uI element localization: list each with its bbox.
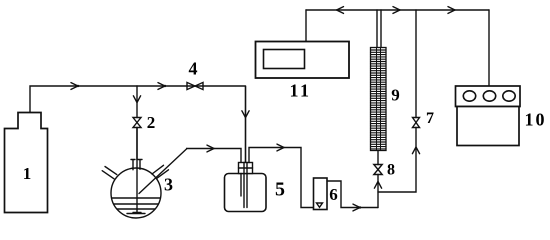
svg-text:10: 10: [525, 110, 547, 130]
arrow right after column: [393, 7, 400, 14]
instrument 11: [256, 42, 350, 79]
wire valve 4 to bottle 5 dip tube: [245, 86, 247, 163]
wire cylinder to main line: [30, 86, 245, 112]
svg-text:4: 4: [189, 59, 198, 79]
instrument 10 body: [457, 107, 519, 146]
box 11 riser: [305, 10, 307, 42]
instrument 11 display: [264, 50, 305, 69]
svg-text:6: 6: [329, 185, 338, 204]
flask 3 body: [111, 168, 161, 218]
arrow right to box 10: [448, 7, 455, 14]
arrow up to valve 7: [412, 147, 419, 154]
arrow left to box 11: [337, 7, 344, 14]
wire valve 2 to flask: [136, 128, 138, 161]
svg-text:3: 3: [164, 175, 173, 195]
wire junction drop to valve 2: [136, 86, 138, 118]
instrument 10 knob B: [483, 91, 495, 101]
column 9 tubes: [377, 10, 381, 48]
wire top line to box 10: [488, 10, 490, 86]
arrow right on flask outlet: [207, 145, 214, 152]
valve 2: [133, 118, 141, 128]
wire branch to valve 7 riser: [378, 128, 416, 193]
wire flowmeter 6 to valve 8 riser: [327, 181, 378, 208]
flask 3 left neck: [102, 167, 117, 179]
flask 3 center neck: [131, 160, 142, 170]
flask 3 liquid: [112, 198, 161, 214]
valve 4: [187, 82, 203, 89]
valve 8: [374, 165, 382, 175]
arrow down to valve 2: [133, 96, 140, 103]
gas cylinder 1: [5, 113, 48, 213]
arrow down to bottle 5: [242, 111, 249, 118]
arrow up to valve 8: [374, 182, 381, 189]
bottle 5 body: [225, 174, 267, 212]
arrow right on bottom wire: [353, 204, 360, 211]
wire flask 3 outlet to bottle 5: [139, 149, 241, 194]
arrow right on main line: [71, 83, 78, 90]
instrument 10 knob A: [463, 91, 475, 101]
svg-text:9: 9: [391, 86, 400, 105]
bottle 5 inner tubes: [241, 163, 247, 208]
bottle 5 cap: [239, 163, 253, 174]
arrow right before valve 4: [158, 83, 165, 90]
instrument 10 knob C: [503, 91, 515, 101]
svg-text:7: 7: [426, 110, 434, 127]
svg-text:1: 1: [23, 164, 32, 183]
svg-text:8: 8: [387, 162, 395, 179]
flowmeter 6: [314, 178, 328, 210]
flowmeter 6 float: [317, 203, 323, 207]
flask 3 right neck: [152, 165, 169, 178]
valve 7: [413, 118, 420, 128]
instrument 10 top strip: [456, 86, 521, 107]
wire valve 8 to column 9: [377, 151, 379, 165]
wire valve 7 to top line: [415, 10, 417, 118]
wire bottle 5 outlet to flowmeter 6: [249, 148, 314, 208]
column 9: [371, 48, 387, 151]
arrow right to flowmeter: [277, 144, 284, 151]
svg-text:11: 11: [289, 81, 311, 101]
svg-text:2: 2: [147, 113, 156, 132]
top line: [306, 9, 489, 11]
wire riser to valve 8: [377, 175, 379, 208]
flask 3 dip tube: [133, 128, 141, 213]
svg-text:5: 5: [275, 179, 285, 201]
